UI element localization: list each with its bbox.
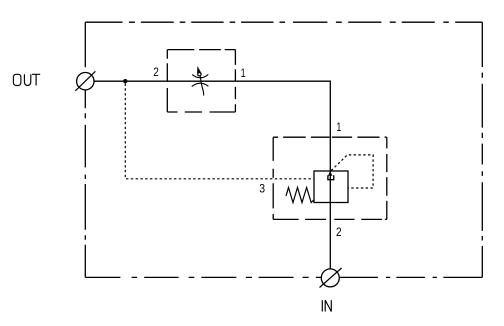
svg-text:1: 1: [241, 67, 246, 80]
svg-text:3: 3: [259, 182, 265, 196]
svg-text:1: 1: [336, 121, 341, 134]
svg-text:2: 2: [153, 66, 159, 79]
svg-text:2: 2: [336, 226, 342, 239]
